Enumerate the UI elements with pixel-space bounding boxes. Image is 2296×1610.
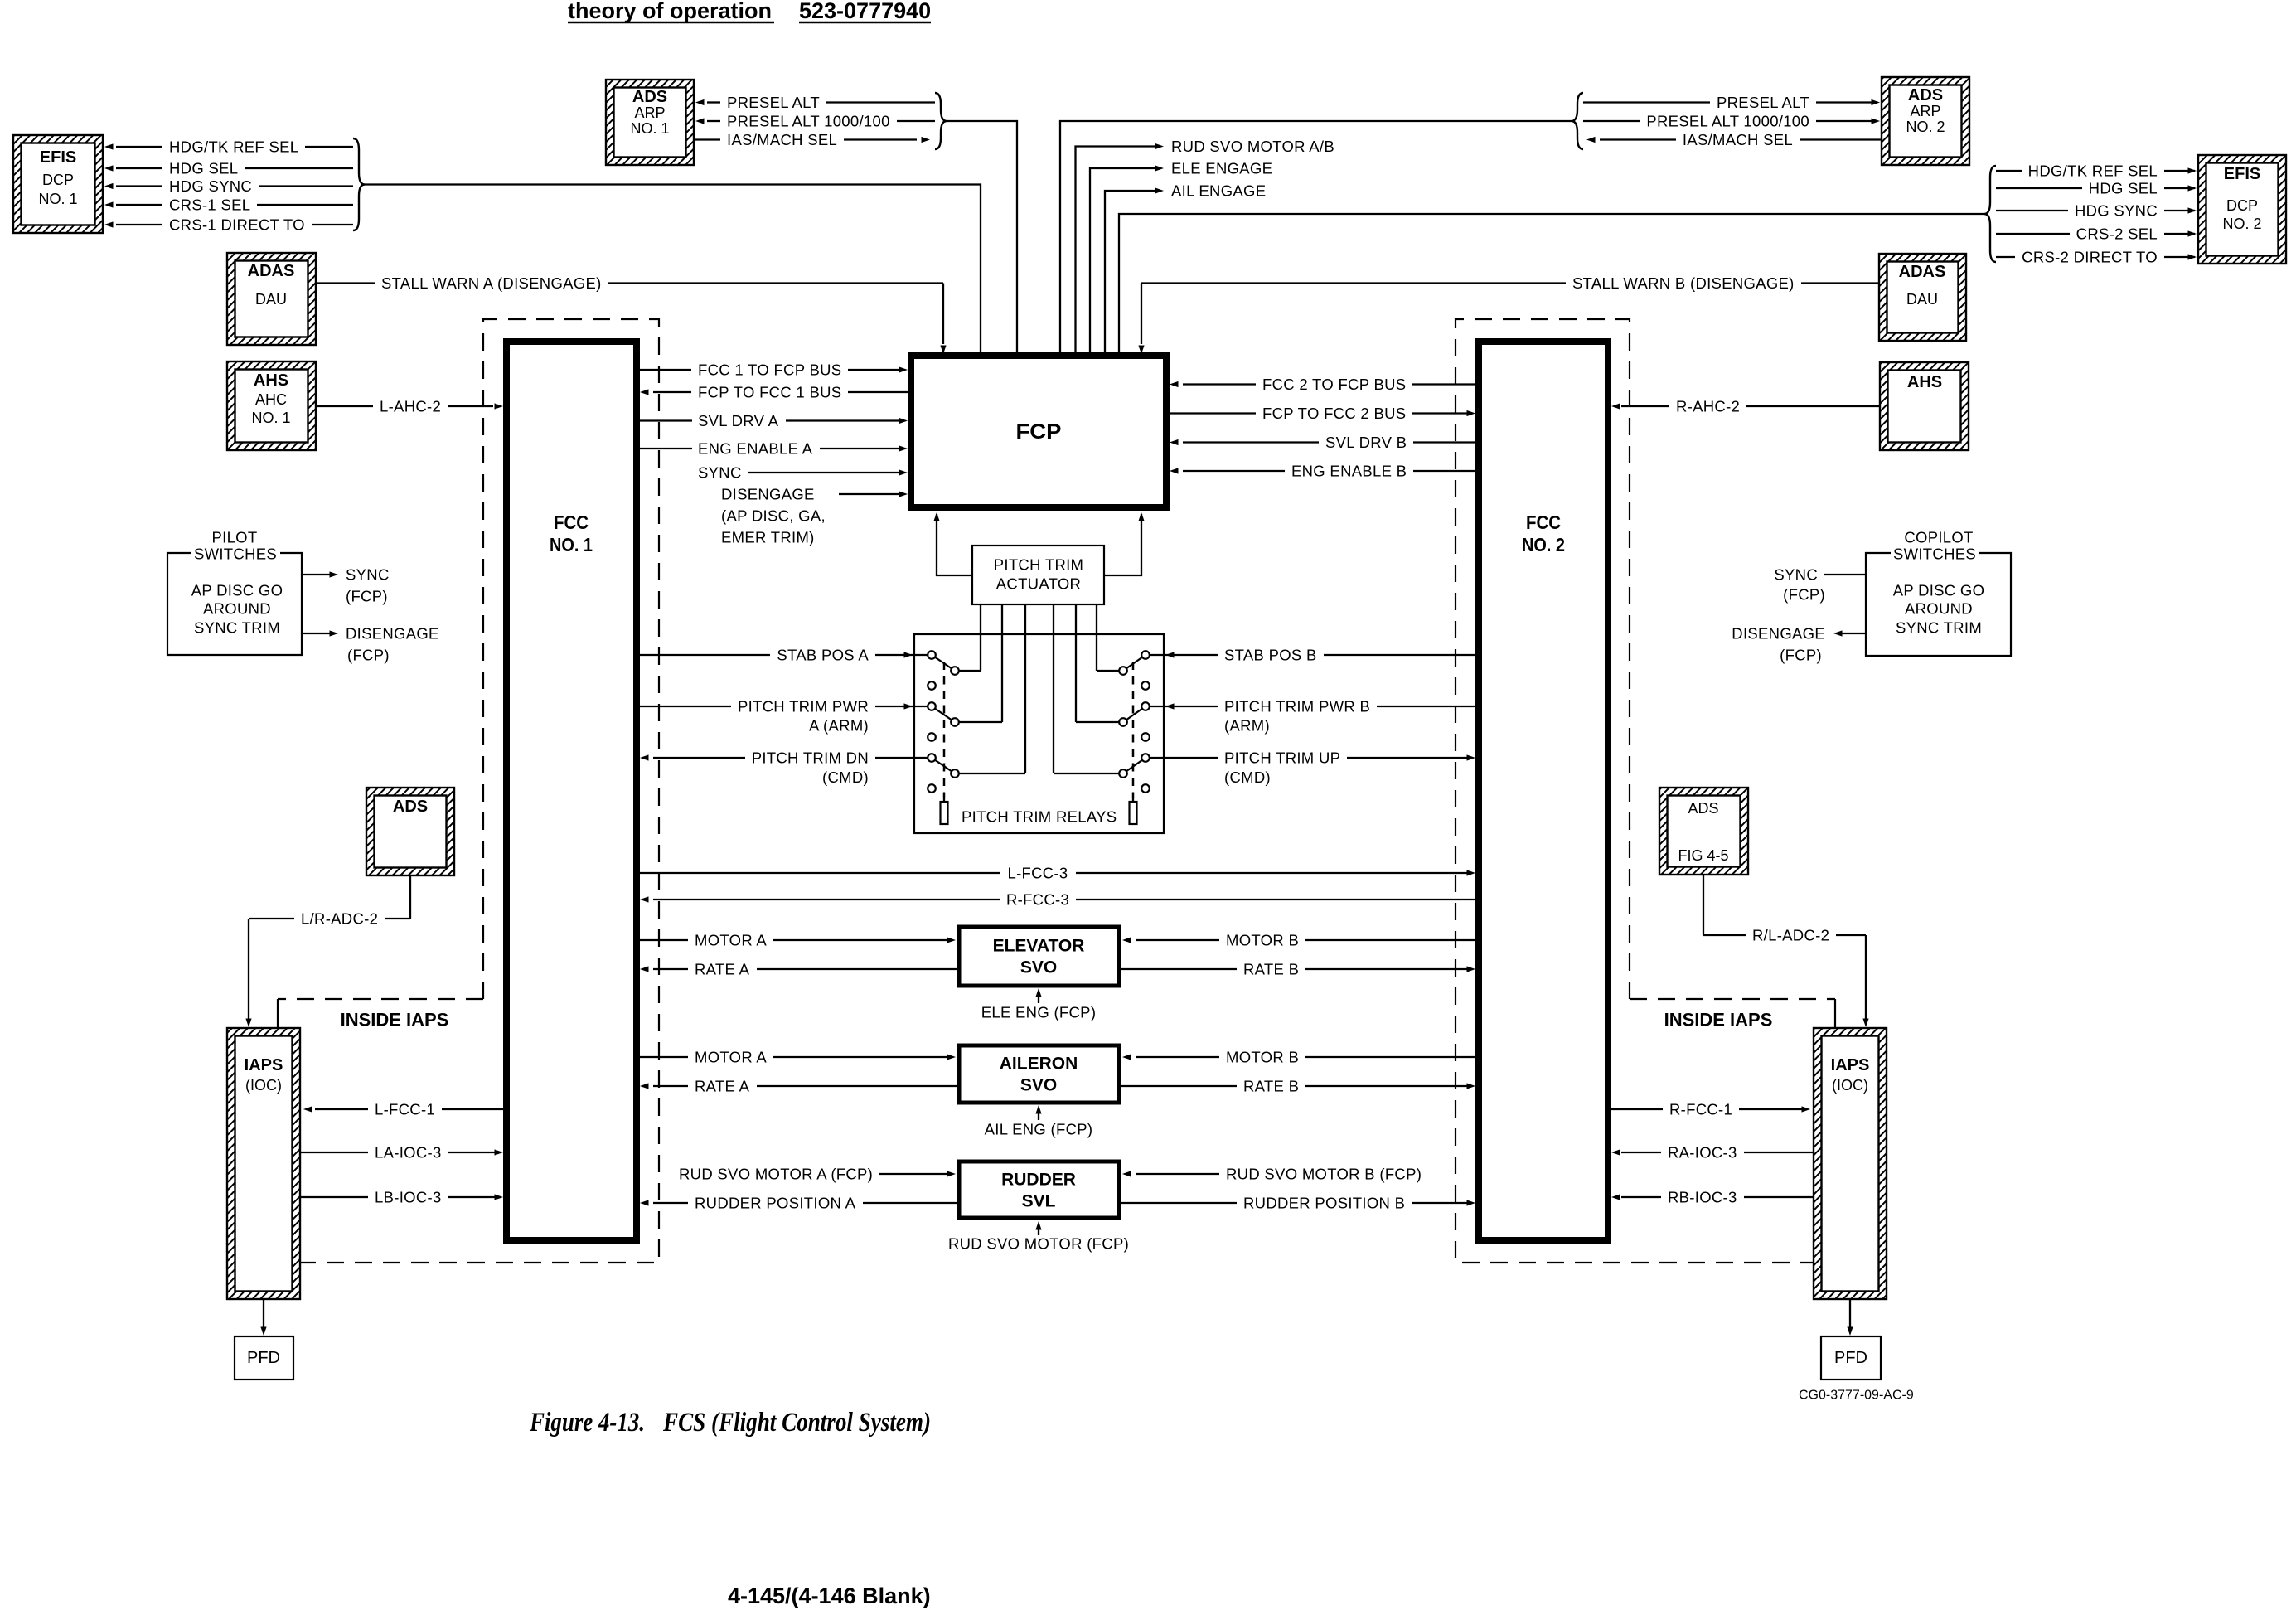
svg-text:ADAS: ADAS xyxy=(1899,263,1946,281)
svg-text:RUD SVO MOTOR A (FCP): RUD SVO MOTOR A (FCP) xyxy=(679,1166,873,1183)
wire actuator lead 6 xyxy=(1096,604,1097,671)
svg-text:CRS-1 DIRECT TO: CRS-1 DIRECT TO xyxy=(169,216,305,234)
svg-text:PRESEL ALT: PRESEL ALT xyxy=(727,94,820,111)
wire IAPS right to PFD xyxy=(1849,1299,1851,1328)
svg-text:IAS/MACH SEL: IAS/MACH SEL xyxy=(1683,131,1793,148)
svg-text:EFIS: EFIS xyxy=(2224,165,2260,183)
wire R-FCC-1 xyxy=(1608,1108,1663,1110)
svg-text:AP DISC GO: AP DISC GO xyxy=(1893,582,1985,599)
box IAPS (IOC) left xyxy=(227,1028,300,1299)
wire PITCH TRIM DN (CMD) xyxy=(640,754,649,760)
wire actuator lead 2 xyxy=(1001,604,1003,722)
svg-text:FCC: FCC xyxy=(1526,512,1561,533)
wire STAB POS A xyxy=(637,654,770,656)
svg-text:PFD: PFD xyxy=(1834,1349,1867,1367)
wire RATE B (aileron) xyxy=(1119,1085,1237,1087)
box ADS FIG 4-5 xyxy=(1659,788,1748,875)
svg-text:PFD: PFD xyxy=(247,1349,280,1367)
svg-text:HDG SEL: HDG SEL xyxy=(169,160,238,177)
wire boundary drop into IAPS right xyxy=(1834,999,1836,1028)
relay throw A3 xyxy=(955,773,1025,774)
svg-text:SVL DRV A: SVL DRV A xyxy=(698,412,779,429)
svg-text:NO. 2: NO. 2 xyxy=(2222,216,2261,232)
svg-text:FCC: FCC xyxy=(554,512,589,533)
box PFD left xyxy=(235,1336,293,1380)
svg-text:RUD SVO MOTOR (FCP): RUD SVO MOTOR (FCP) xyxy=(948,1235,1129,1253)
svg-text:L-FCC-3: L-FCC-3 xyxy=(1007,865,1068,882)
svg-text:SVL: SVL xyxy=(1022,1192,1056,1211)
svg-text:523-0777940: 523-0777940 xyxy=(799,0,931,23)
wire FCP TO FCC 2 BUS xyxy=(1166,412,1256,414)
svg-text:R-FCC-1: R-FCC-1 xyxy=(1669,1101,1732,1118)
box ADAS DAU no.1 xyxy=(227,253,316,345)
box ELEVATOR SVO xyxy=(959,927,1119,986)
wire STALL WARN A (DISENGAGE) xyxy=(316,282,375,284)
box EFIS DCP NO. 2 xyxy=(2198,155,2286,264)
wire CRS-1 SEL to EFIS no.1 xyxy=(116,204,162,206)
svg-text:R-AHC-2: R-AHC-2 xyxy=(1676,398,1740,415)
wire FCP TO FCC 1 BUS xyxy=(640,389,649,395)
relay coil A xyxy=(941,802,948,824)
svg-text:L-AHC-2: L-AHC-2 xyxy=(380,398,441,415)
svg-text:(FCP): (FCP) xyxy=(1780,647,1822,664)
relay coil B xyxy=(1130,802,1137,824)
svg-text:SVO: SVO xyxy=(1020,1076,1057,1095)
svg-text:STALL WARN A (DISENGAGE): STALL WARN A (DISENGAGE) xyxy=(381,274,602,292)
svg-text:4-145/(4-146 Blank): 4-145/(4-146 Blank) xyxy=(728,1583,931,1608)
svg-text:PITCH TRIM RELAYS: PITCH TRIM RELAYS xyxy=(962,808,1117,826)
wire ELE ENGAGE from FCP xyxy=(1090,168,1160,356)
box PFD right xyxy=(1821,1336,1881,1380)
svg-text:AILERON: AILERON xyxy=(1000,1055,1078,1074)
svg-text:SYNC: SYNC xyxy=(698,464,742,482)
wire RATE A (aileron) xyxy=(640,1083,649,1089)
wire SYNC (FCP) pilot xyxy=(302,574,330,575)
wire PITCH TRIM PWR A (ARM) xyxy=(637,706,731,707)
svg-text:ENG ENABLE A: ENG ENABLE A xyxy=(698,440,813,458)
svg-text:PRESEL ALT: PRESEL ALT xyxy=(1717,94,1809,111)
svg-text:PITCH TRIM DN: PITCH TRIM DN xyxy=(752,749,869,767)
wire actuator lead 5 xyxy=(1075,604,1077,722)
svg-text:INSIDE IAPS: INSIDE IAPS xyxy=(1664,1010,1773,1030)
svg-text:MOTOR A: MOTOR A xyxy=(695,1049,767,1066)
box IAPS (IOC) right xyxy=(1814,1028,1887,1299)
brace EFIS no.1 bus xyxy=(353,138,365,230)
dashed boundary INSIDE IAPS left xyxy=(300,319,659,1263)
wire ENG ENABLE B xyxy=(1170,468,1179,473)
svg-text:DCP: DCP xyxy=(2226,197,2258,214)
svg-text:SWITCHES: SWITCHES xyxy=(1893,546,1976,563)
box AHS no.2 xyxy=(1880,362,1969,450)
box PITCH TRIM RELAYS xyxy=(914,634,1164,833)
wire PITCH TRIM UP (CMD) xyxy=(1150,757,1218,759)
svg-text:FCC 2 TO FCP BUS: FCC 2 TO FCP BUS xyxy=(1262,376,1406,393)
svg-text:A (ARM): A (ARM) xyxy=(809,717,869,735)
svg-text:DISENGAGE: DISENGAGE xyxy=(721,486,815,503)
wire CRS-1 DIRECT TO to EFIS no.1 xyxy=(116,224,162,225)
svg-text:MOTOR A: MOTOR A xyxy=(695,932,767,949)
relay throw B3 xyxy=(1054,773,1123,774)
wire HDG SEL to EFIS no.2 xyxy=(1996,187,2082,189)
relay blade B1 xyxy=(1123,655,1146,671)
wire actuator lead 3 xyxy=(1024,604,1026,773)
svg-text:HDG/TK REF SEL: HDG/TK REF SEL xyxy=(169,138,298,156)
svg-text:FCS (Flight Control System): FCS (Flight Control System) xyxy=(662,1408,931,1438)
wire PRESEL ALT to ADS no.2 xyxy=(1583,101,1710,103)
wire HDG SEL to EFIS no.1 xyxy=(116,167,162,169)
brace ADS no.2 bus xyxy=(1572,93,1583,149)
box AHS AHC NO. 1 xyxy=(227,361,316,450)
wire PRESEL ALT to ADS no.1 xyxy=(707,101,720,103)
wire HDG SYNC to EFIS no.2 xyxy=(1996,210,2068,211)
svg-text:SVL DRV B: SVL DRV B xyxy=(1325,434,1407,451)
svg-text:DCP: DCP xyxy=(42,172,74,188)
svg-text:NO. 2: NO. 2 xyxy=(1906,119,1945,135)
wire RATE A (elevator) xyxy=(640,966,649,972)
svg-text:CRS-2 SEL: CRS-2 SEL xyxy=(2076,225,2158,243)
svg-text:INSIDE IAPS: INSIDE IAPS xyxy=(341,1010,449,1030)
wire actuator to FCP right xyxy=(1104,514,1141,575)
svg-text:STAB POS A: STAB POS A xyxy=(777,647,869,664)
relay throw A2 xyxy=(955,721,1002,723)
svg-text:AIL ENGAGE: AIL ENGAGE xyxy=(1171,182,1266,200)
svg-text:ELEVATOR: ELEVATOR xyxy=(993,937,1085,956)
svg-text:ADS: ADS xyxy=(632,88,667,106)
wire R-FCC-3 xyxy=(640,896,649,902)
wire PRESEL ALT 1000/100 to ADS no.1 xyxy=(707,120,720,122)
svg-text:PRESEL ALT 1000/100: PRESEL ALT 1000/100 xyxy=(1646,113,1809,130)
wire HDG/TK REF SEL to EFIS no.1 xyxy=(116,146,162,148)
svg-text:IAPS: IAPS xyxy=(1831,1056,1870,1074)
svg-text:RATE B: RATE B xyxy=(1243,1078,1299,1095)
wire RUD SVO MOTOR A/B from FCP xyxy=(1076,147,1161,356)
wire MOTOR A (elevator) xyxy=(637,939,688,941)
svg-text:RATE B: RATE B xyxy=(1243,961,1299,978)
brace ADS no.1 bus xyxy=(935,93,947,149)
wire RUD SVO MOTOR B (FCP) xyxy=(1122,1171,1131,1176)
box FCP xyxy=(911,356,1166,507)
wire actuator to FCP left xyxy=(937,514,972,575)
relay blade B2 xyxy=(1123,706,1146,722)
wire actuator lead 1 xyxy=(980,604,981,671)
relay blade A3 xyxy=(932,758,955,773)
svg-text:L-FCC-1: L-FCC-1 xyxy=(375,1101,435,1118)
svg-text:DAU: DAU xyxy=(255,291,287,308)
svg-text:CRS-2 DIRECT TO: CRS-2 DIRECT TO xyxy=(2022,249,2158,266)
wire PRESEL ALT 1000/100 to ADS no.2 xyxy=(1583,120,1640,122)
box PILOT SWITCHES xyxy=(167,553,302,655)
wire STALL WARN B (DISENGAGE) xyxy=(1801,282,1879,284)
wire MOTOR B (elevator) xyxy=(1122,937,1131,943)
wire AIL ENGAGE from FCP xyxy=(1105,191,1160,356)
box ADS ARP NO. 2 xyxy=(1882,77,1969,165)
svg-text:MOTOR B: MOTOR B xyxy=(1226,1049,1299,1066)
wire ENG ENABLE A xyxy=(637,448,692,449)
svg-text:PRESEL ALT 1000/100: PRESEL ALT 1000/100 xyxy=(727,113,890,130)
relay blade A1 xyxy=(932,655,955,671)
relay throw A1 xyxy=(955,670,981,672)
svg-text:ADAS: ADAS xyxy=(248,262,295,280)
svg-text:ADS: ADS xyxy=(1688,800,1718,817)
wire ADS1 bus to FCP xyxy=(947,121,1017,356)
svg-text:(IOC): (IOC) xyxy=(245,1077,282,1094)
wire R-AHC-2 xyxy=(1746,405,1880,407)
svg-text:(FCP): (FCP) xyxy=(346,588,388,605)
svg-text:ARP: ARP xyxy=(1910,103,1940,119)
svg-text:RUD SVO MOTOR A/B: RUD SVO MOTOR A/B xyxy=(1171,138,1334,155)
svg-text:(IOC): (IOC) xyxy=(1832,1077,1868,1094)
svg-text:IAPS: IAPS xyxy=(245,1056,283,1074)
svg-text:HDG SYNC: HDG SYNC xyxy=(169,177,252,195)
wire ELE ENG (FCP) xyxy=(1038,992,1039,1003)
svg-text:SYNC TRIM: SYNC TRIM xyxy=(1896,619,1982,637)
svg-text:HDG SYNC: HDG SYNC xyxy=(2075,202,2158,220)
svg-text:EMER TRIM): EMER TRIM) xyxy=(721,529,815,546)
wire actuator lead 4 xyxy=(1053,604,1054,773)
box AILERON SVO xyxy=(959,1045,1119,1103)
box RUDDER SVL xyxy=(959,1161,1119,1218)
svg-text:SWITCHES: SWITCHES xyxy=(194,546,277,563)
wire RUD SVO MOTOR (FCP) xyxy=(1038,1224,1039,1235)
svg-text:NO. 1: NO. 1 xyxy=(38,191,77,207)
svg-text:STAB POS B: STAB POS B xyxy=(1224,647,1317,664)
box FCC NO. 2 xyxy=(1479,342,1608,1240)
svg-text:PITCH TRIM UP: PITCH TRIM UP xyxy=(1224,749,1340,767)
box FCC NO. 1 xyxy=(506,342,637,1240)
svg-text:DAU: DAU xyxy=(1906,291,1938,308)
svg-text:RA-IOC-3: RA-IOC-3 xyxy=(1668,1144,1737,1161)
svg-text:COPILOT: COPILOT xyxy=(1904,529,1973,546)
svg-text:FCP: FCP xyxy=(1016,420,1062,444)
wire STAB POS B xyxy=(1324,654,1479,656)
svg-text:(FCP): (FCP) xyxy=(1783,586,1825,604)
svg-text:EFIS: EFIS xyxy=(40,148,76,167)
svg-text:Figure 4-13.: Figure 4-13. xyxy=(529,1408,645,1438)
wire IAS/MACH SEL from ADS no.2 xyxy=(1586,137,1596,143)
box ADS (left mid) xyxy=(366,788,454,875)
svg-text:PILOT: PILOT xyxy=(212,529,258,546)
svg-text:(CMD): (CMD) xyxy=(822,769,869,786)
relay throw B2 xyxy=(1076,721,1123,723)
svg-text:AROUND: AROUND xyxy=(1905,600,1973,618)
box EFIS DCP NO. 1 xyxy=(13,135,103,233)
svg-text:DISENGAGE: DISENGAGE xyxy=(346,625,439,643)
svg-text:PITCH TRIM: PITCH TRIM xyxy=(994,556,1084,574)
wire R/L-ADC-2 xyxy=(1703,875,1704,935)
svg-text:FCC 1 TO FCP BUS: FCC 1 TO FCP BUS xyxy=(698,361,841,379)
svg-text:RUDDER: RUDDER xyxy=(1001,1171,1076,1190)
svg-text:AIL ENG (FCP): AIL ENG (FCP) xyxy=(985,1121,1093,1138)
svg-text:NO. 1: NO. 1 xyxy=(251,410,290,426)
wire RA-IOC-3 xyxy=(1744,1152,1814,1153)
svg-text:IAS/MACH SEL: IAS/MACH SEL xyxy=(727,131,837,148)
svg-text:HDG SEL: HDG SEL xyxy=(2089,180,2158,197)
wire AIL ENG (FCP) xyxy=(1038,1108,1039,1120)
svg-text:NO. 2: NO. 2 xyxy=(1522,534,1565,555)
svg-text:ADS: ADS xyxy=(1908,86,1943,104)
wire EFIS2 bus from FCP xyxy=(1119,214,1984,356)
wire MOTOR B (aileron) xyxy=(1122,1054,1131,1060)
svg-text:(FCP): (FCP) xyxy=(347,647,390,664)
svg-text:AHC: AHC xyxy=(255,391,287,408)
wire L/R-ADC-2 xyxy=(409,875,411,919)
svg-text:RUDDER POSITION B: RUDDER POSITION B xyxy=(1243,1195,1405,1212)
relay blade A2 xyxy=(932,706,955,722)
wire SVL DRV A xyxy=(637,419,692,421)
svg-text:ACTUATOR: ACTUATOR xyxy=(996,575,1081,593)
wire MOTOR A (aileron) xyxy=(637,1056,688,1058)
svg-text:SYNC TRIM: SYNC TRIM xyxy=(194,619,280,637)
svg-text:SYNC: SYNC xyxy=(346,566,390,584)
svg-text:AROUND: AROUND xyxy=(203,600,271,618)
wire HDG/TK REF SEL to EFIS no.2 xyxy=(1996,170,2022,172)
svg-text:LA-IOC-3: LA-IOC-3 xyxy=(375,1144,442,1161)
svg-text:RUDDER POSITION A: RUDDER POSITION A xyxy=(695,1195,856,1212)
wire L-AHC-2 xyxy=(316,405,373,407)
box PITCH TRIM ACTUATOR xyxy=(972,546,1104,604)
wire LA-IOC-3 xyxy=(300,1152,368,1153)
box ADAS DAU no.2 xyxy=(1879,254,1966,341)
wire HDG SYNC to EFIS no.1 xyxy=(116,185,162,187)
box ADS ARP NO. 1 xyxy=(606,80,694,165)
svg-text:RUD SVO MOTOR B (FCP): RUD SVO MOTOR B (FCP) xyxy=(1226,1166,1422,1183)
wire L-FCC-3 xyxy=(637,872,1000,874)
svg-text:STALL WARN B (DISENGAGE): STALL WARN B (DISENGAGE) xyxy=(1572,274,1795,292)
svg-text:L/R-ADC-2: L/R-ADC-2 xyxy=(301,910,378,928)
wire RATE B (elevator) xyxy=(1119,968,1237,970)
svg-text:ENG ENABLE B: ENG ENABLE B xyxy=(1291,463,1407,480)
box COPILOT SWITCHES xyxy=(1866,553,2011,656)
svg-text:(CMD): (CMD) xyxy=(1224,769,1271,786)
svg-text:theory of operation: theory of operation xyxy=(568,0,772,23)
svg-text:FCP TO FCC 1 BUS: FCP TO FCC 1 BUS xyxy=(698,384,841,401)
svg-text:AP DISC GO: AP DISC GO xyxy=(191,582,283,599)
wire ADS2 bus to FCP xyxy=(1060,121,1572,356)
svg-text:NO. 1: NO. 1 xyxy=(550,534,593,555)
svg-text:PITCH TRIM PWR: PITCH TRIM PWR xyxy=(738,698,869,715)
wire L-FCC-1 xyxy=(442,1108,506,1110)
svg-text:ADS: ADS xyxy=(393,798,428,816)
svg-text:(AP DISC, GA,: (AP DISC, GA, xyxy=(721,507,826,525)
svg-text:ELE ENG (FCP): ELE ENG (FCP) xyxy=(981,1004,1097,1021)
svg-text:ELE ENGAGE: ELE ENGAGE xyxy=(1171,160,1272,177)
wire FCC 2 TO FCP BUS xyxy=(1170,381,1179,387)
wire CRS-2 SEL to EFIS no.2 xyxy=(1996,233,2070,235)
wire IAPS left to PFD xyxy=(263,1299,264,1328)
svg-text:RATE A: RATE A xyxy=(695,1078,750,1095)
svg-text:CRS-1 SEL: CRS-1 SEL xyxy=(169,196,250,214)
relay throw B1 xyxy=(1097,670,1123,672)
wire EFIS1 bus to FCP xyxy=(365,185,981,356)
wire LB-IOC-3 xyxy=(300,1196,368,1198)
svg-text:FCP TO FCC 2 BUS: FCP TO FCC 2 BUS xyxy=(1262,405,1406,422)
wire DISENGAGE (FCP) pilot xyxy=(302,633,330,634)
svg-text:FIG 4-5: FIG 4-5 xyxy=(1678,847,1728,864)
wire FCC 1 TO FCP BUS xyxy=(637,369,691,371)
wire RUDDER POSITION B xyxy=(1119,1202,1237,1204)
wire boundary drop into IAPS left xyxy=(277,999,279,1028)
svg-text:PITCH TRIM PWR B: PITCH TRIM PWR B xyxy=(1224,698,1370,715)
svg-text:LB-IOC-3: LB-IOC-3 xyxy=(375,1189,442,1206)
wire RB-IOC-3 xyxy=(1744,1196,1814,1198)
svg-text:ARP: ARP xyxy=(634,104,665,121)
svg-text:RB-IOC-3: RB-IOC-3 xyxy=(1668,1189,1737,1206)
svg-text:AHS: AHS xyxy=(254,371,288,390)
svg-text:(ARM): (ARM) xyxy=(1224,717,1270,735)
wire CRS-2 DIRECT TO to EFIS no.2 xyxy=(1996,256,2015,258)
svg-text:SVO: SVO xyxy=(1020,958,1057,977)
svg-text:R-FCC-3: R-FCC-3 xyxy=(1006,891,1069,909)
wire SVL DRV B xyxy=(1170,439,1179,445)
brace EFIS no.2 bus xyxy=(1984,166,1996,262)
svg-text:R/L-ADC-2: R/L-ADC-2 xyxy=(1752,927,1829,944)
svg-text:NO. 1: NO. 1 xyxy=(630,120,669,137)
wire IAS/MACH SEL from ADS no.1 xyxy=(694,138,720,140)
svg-text:HDG/TK REF SEL: HDG/TK REF SEL xyxy=(2028,162,2158,180)
svg-text:MOTOR B: MOTOR B xyxy=(1226,932,1299,949)
svg-text:AHS: AHS xyxy=(1907,373,1942,391)
wire PITCH TRIM PWR B (ARM) xyxy=(1377,706,1479,707)
wire RUDDER POSITION A xyxy=(640,1200,649,1205)
relay blade B3 xyxy=(1123,758,1146,773)
svg-text:RATE A: RATE A xyxy=(695,961,750,978)
dashed boundary INSIDE IAPS right xyxy=(1456,319,1814,1263)
svg-text:CG0-3777-09-AC-9: CG0-3777-09-AC-9 xyxy=(1799,1389,1914,1403)
svg-text:DISENGAGE: DISENGAGE xyxy=(1732,625,1825,643)
svg-text:SYNC: SYNC xyxy=(1774,566,1818,584)
